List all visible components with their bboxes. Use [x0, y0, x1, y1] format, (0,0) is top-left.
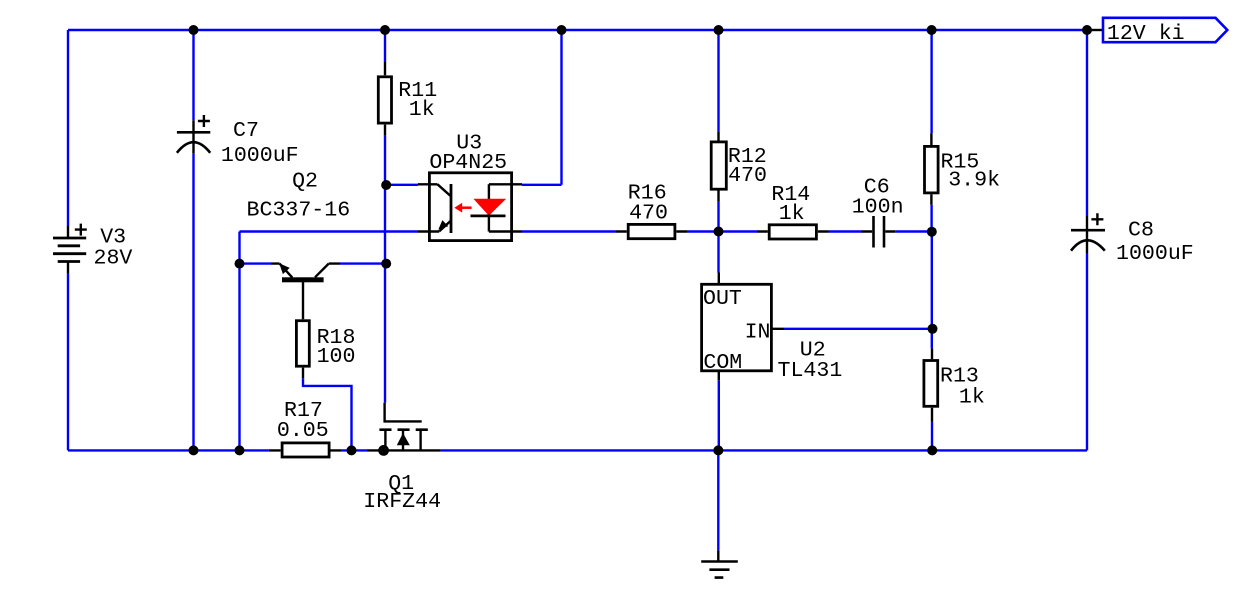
svg-text:470: 470: [728, 164, 767, 188]
svg-text:OUT: OUT: [703, 287, 742, 311]
svg-text:1k: 1k: [409, 98, 435, 122]
svg-text:BC337-16: BC337-16: [247, 199, 351, 223]
svg-text:Q2: Q2: [292, 170, 318, 194]
svg-text:C8: C8: [1128, 219, 1154, 243]
svg-text:1k: 1k: [779, 202, 805, 226]
svg-text:100: 100: [317, 345, 356, 369]
svg-text:1000uF: 1000uF: [1116, 242, 1194, 266]
svg-text:COM: COM: [703, 351, 742, 375]
svg-text:100n: 100n: [852, 196, 904, 220]
svg-text:TL431: TL431: [778, 359, 843, 383]
svg-text:C7: C7: [233, 119, 259, 143]
svg-text:IRFZ44: IRFZ44: [363, 490, 441, 514]
svg-text:OP4N25: OP4N25: [429, 151, 507, 175]
svg-text:0.05: 0.05: [277, 419, 329, 443]
svg-text:28V: 28V: [94, 247, 133, 271]
svg-text:IN: IN: [745, 321, 771, 345]
svg-text:1k: 1k: [959, 386, 985, 410]
svg-text:470: 470: [629, 201, 668, 225]
svg-text:3.9k: 3.9k: [948, 169, 1000, 193]
svg-text:12V ki: 12V ki: [1107, 22, 1185, 46]
svg-text:1000uF: 1000uF: [221, 144, 299, 168]
